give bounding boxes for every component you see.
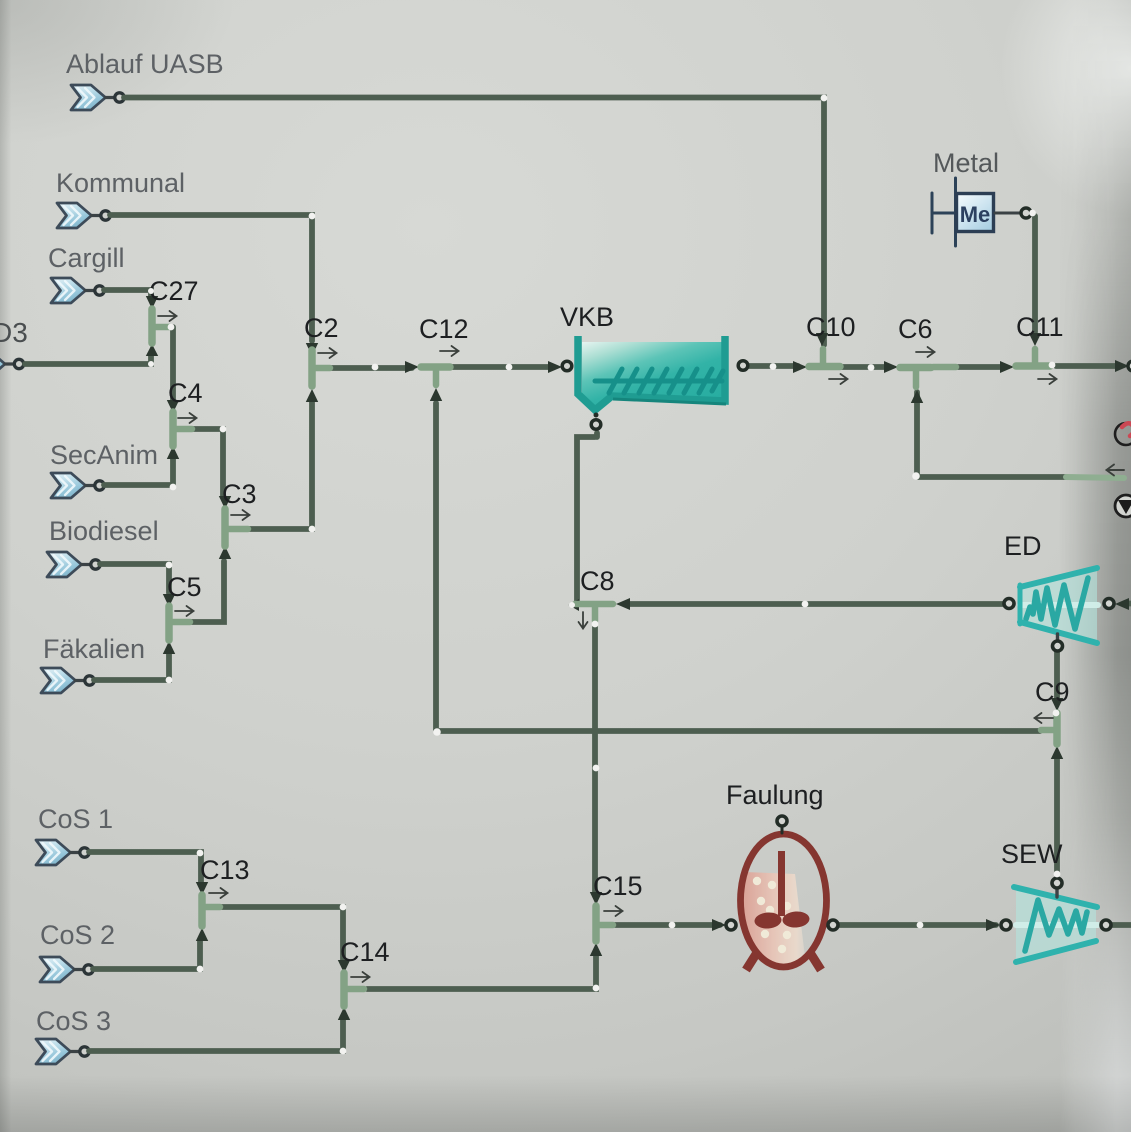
source Kommunal — [56, 168, 185, 228]
junction C14 — [338, 937, 390, 1020]
svg-text:C14: C14 — [340, 937, 390, 967]
wire Biodiesel to C5 — [100, 564, 169, 593]
svg-text:C6: C6 — [898, 314, 933, 344]
svg-text:Faulung: Faulung — [726, 780, 824, 810]
wire C11 to right edge — [1056, 363, 1117, 369]
junction C2 — [304, 313, 339, 402]
junction C4 — [167, 378, 203, 459]
wire C12 to VKB — [452, 364, 552, 370]
wire VKB sludge to C8 — [577, 433, 597, 601]
wire ED to C8 — [628, 601, 1003, 607]
svg-text:Ablauf UASB: Ablauf UASB — [66, 49, 224, 79]
svg-text:C5: C5 — [167, 572, 202, 602]
svg-text:C9: C9 — [1035, 677, 1070, 707]
junction C5 — [163, 572, 202, 654]
wire CoS 3 to C14 — [89, 1020, 343, 1051]
SEW top port — [1055, 888, 1058, 897]
ED right inlet arrow from edge — [1124, 601, 1131, 607]
wire Cargill to C27 — [104, 290, 151, 296]
wire Kommunal to C2 — [110, 215, 312, 341]
wire C5 to C3 — [174, 561, 224, 622]
junction C12 — [405, 314, 469, 401]
wire C10 to C6 — [841, 364, 888, 370]
svg-text:C3: C3 — [222, 479, 257, 509]
source Faekalien — [41, 634, 145, 693]
wire CoS 1 to C13 — [89, 852, 201, 883]
cropped valve symbol right edge — [1115, 495, 1131, 517]
joint dots — [148, 95, 1060, 1055]
source CoS 3 — [36, 1006, 111, 1064]
metal dosing block Metal — [932, 148, 1031, 246]
cropped pump symbol right edge — [1107, 423, 1131, 476]
wire C3 to C2 — [231, 402, 312, 529]
junction C8 — [569, 566, 631, 629]
wire SEW to right edge — [1112, 922, 1131, 928]
wire C9 to SEW top — [1054, 759, 1060, 873]
junction C27 — [146, 276, 199, 356]
junction C9 — [1035, 677, 1070, 759]
svg-text:C4: C4 — [168, 378, 203, 408]
wire C6 to C11 — [958, 364, 1002, 370]
junction C11 — [1000, 312, 1064, 384]
svg-text:C12: C12 — [419, 314, 469, 344]
svg-text:C2: C2 — [304, 313, 339, 343]
wire C6 bottom from right edge — [917, 392, 1066, 477]
source Biodiesel — [47, 516, 159, 577]
junction C10 — [793, 312, 856, 384]
svg-text:C8: C8 — [580, 566, 615, 596]
svg-text:SEW: SEW — [1001, 839, 1063, 869]
wire CoS 2 to C13 — [93, 941, 200, 969]
junction C13 — [196, 855, 250, 941]
source SecAnim — [50, 440, 158, 498]
junction C3 — [219, 479, 257, 559]
svg-text:Biodiesel: Biodiesel — [49, 516, 159, 546]
svg-text:CoS 2: CoS 2 — [40, 920, 115, 950]
VKB inlet arrow and port — [548, 361, 562, 373]
svg-text:C11: C11 — [1016, 312, 1064, 342]
clarifier VKB — [548, 302, 748, 429]
wire C14 to C15 — [367, 956, 596, 989]
wire C2 to C12 — [318, 365, 412, 371]
svg-text:Fäkalien: Fäkalien — [43, 634, 145, 664]
wire SecAnim to C4 — [104, 458, 173, 485]
wire C8 to C15 — [592, 627, 598, 892]
svg-text:C13: C13 — [200, 855, 250, 885]
source Ablauf UASB — [66, 49, 224, 110]
junction C6 — [884, 314, 956, 403]
svg-text:SecAnim: SecAnim — [50, 440, 158, 470]
svg-text:C10: C10 — [806, 312, 856, 342]
VKB outlet port — [738, 361, 748, 371]
thickener SEW — [986, 839, 1111, 962]
wire VKB outlet to C10 — [749, 363, 798, 369]
source D3 (cropped) — [0, 317, 28, 377]
wire C27 to C4 — [156, 327, 173, 402]
svg-text:D3: D3 — [0, 317, 28, 348]
junction C15 — [590, 871, 643, 956]
svg-text:ED: ED — [1004, 531, 1042, 561]
wire C13 to C14 — [221, 907, 343, 960]
svg-text:C15: C15 — [593, 871, 643, 901]
cropped component right edge top (port after C11) — [1115, 360, 1131, 372]
ED bottom port — [1056, 634, 1059, 641]
svg-text:Me: Me — [960, 202, 991, 227]
thickener ED — [1004, 531, 1131, 651]
VKB bottom port — [594, 413, 599, 418]
source Cargill — [48, 243, 125, 303]
svg-text:VKB: VKB — [560, 302, 614, 332]
svg-text:Kommunal: Kommunal — [56, 168, 185, 198]
wire C4 to C3 — [178, 429, 223, 497]
wire Ablauf UASB to C10 — [124, 98, 824, 346]
wire Metal to C11 — [1032, 216, 1038, 332]
wire C15 to Faulung — [615, 922, 720, 928]
svg-text:CoS 1: CoS 1 — [38, 804, 113, 834]
digester Faulung — [712, 780, 838, 970]
source CoS 1 — [36, 804, 113, 865]
wire D3 to C27 — [25, 356, 151, 364]
svg-text:C27: C27 — [149, 276, 199, 306]
wire light segment right edge — [1066, 477, 1124, 478]
wire Faekalien to C5 — [94, 654, 169, 680]
wire Faulung to SEW — [839, 922, 996, 928]
wire ED bottom to C9 — [1054, 652, 1060, 698]
svg-text:Metal: Metal — [933, 148, 999, 178]
svg-text:Cargill: Cargill — [48, 243, 125, 273]
Faulung inlet arrow and ports — [712, 919, 726, 931]
wire C9 to C12 — [436, 403, 1040, 732]
svg-text:CoS 3: CoS 3 — [36, 1006, 111, 1036]
source CoS 2 — [40, 920, 115, 982]
